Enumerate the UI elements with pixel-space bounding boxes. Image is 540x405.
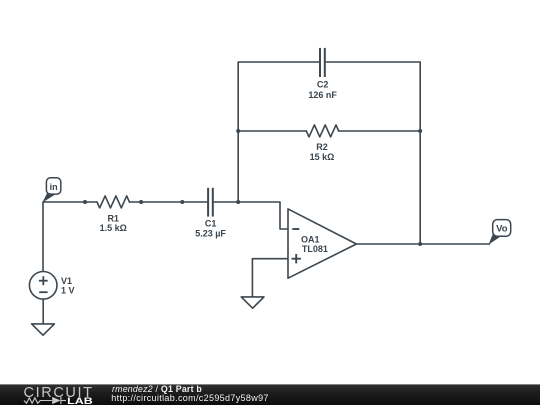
svg-text:in: in (50, 182, 58, 192)
svg-text:126 nF: 126 nF (308, 90, 337, 100)
svg-text:C2: C2 (317, 80, 329, 90)
svg-text:LAB: LAB (67, 396, 93, 405)
svg-text:1 V: 1 V (61, 285, 75, 295)
svg-text:R2: R2 (316, 142, 328, 152)
svg-text:TL081: TL081 (302, 244, 328, 254)
svg-text:Vo: Vo (496, 224, 508, 235)
svg-text:5.23 µF: 5.23 µF (195, 228, 226, 238)
svg-text:http://circuitlab.com/c2595d7y: http://circuitlab.com/c2595d7y58w97 (111, 393, 268, 403)
svg-text:1.5 kΩ: 1.5 kΩ (100, 223, 127, 233)
svg-text:15 kΩ: 15 kΩ (310, 152, 335, 162)
svg-text:C1: C1 (205, 219, 217, 229)
svg-text:R1: R1 (107, 213, 119, 223)
